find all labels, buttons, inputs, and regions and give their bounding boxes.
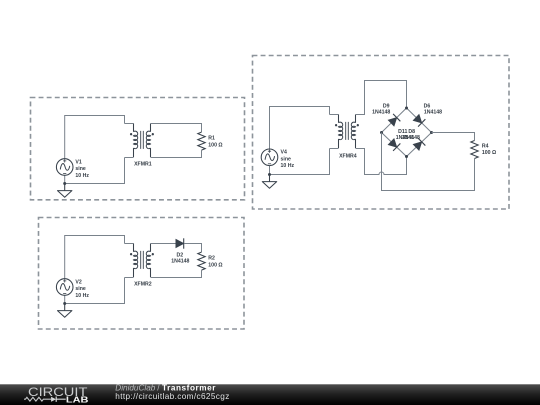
svg-text:sine: sine: [75, 286, 85, 292]
transformer XFMR2 secondary winding: [150, 244, 152, 252]
voltage source V2: plus sign: [63, 279, 66, 282]
transformer XFMR1 core lines: [141, 131, 144, 149]
svg-text:sine: sine: [75, 166, 85, 172]
node junction dot: bridge bottom node: [405, 155, 408, 158]
svg-text:1N4148: 1N4148: [424, 110, 442, 116]
wire: bridge right node to R4: [432, 133, 475, 141]
wire: jog into XFMR4 primary top: [330, 114, 339, 116]
wire: V2 top to XFMR2 primary: [65, 236, 125, 279]
svg-text:10 Hz: 10 Hz: [281, 163, 295, 169]
node junction dot: bridge right node: [430, 131, 433, 134]
wire: jog into XFMR2 primary top: [125, 243, 134, 245]
node junction dot: V4 ground junction: [268, 173, 271, 176]
svg-text:1N4148: 1N4148: [372, 110, 390, 116]
svg-text:V1: V1: [75, 159, 81, 165]
wire: R4 bottom to bridge left node: [382, 133, 475, 191]
transformer XFMR1 primary winding: [133, 124, 135, 132]
wire: V1 top to XFMR1 primary: [65, 116, 125, 159]
voltage source V4: symbol circle: [261, 149, 278, 166]
transformer XFMR4 primary winding: [338, 115, 340, 123]
dashed enclosure box around circuit 2: [39, 218, 245, 330]
svg-text:100 Ω: 100 Ω: [482, 150, 496, 156]
wire: diode D2 to R2: [184, 244, 201, 253]
svg-text:LAB: LAB: [66, 395, 89, 404]
svg-text:R4: R4: [482, 143, 489, 149]
voltage source V1: plus sign: [63, 159, 66, 162]
voltage source V2: sine wave glyph: [60, 284, 69, 291]
voltage source V4: plus sign: [268, 150, 271, 153]
transformer XFMR2 core lines: [141, 251, 144, 269]
diode D6 symbol: [413, 114, 426, 127]
wire: jog out of XFMR4 primary bottom: [330, 148, 339, 150]
transformer XFMR1 primary polarity dot: [130, 133, 132, 135]
transformer XFMR1 secondary winding: [150, 124, 152, 132]
wire: XFMR4 secondary bottom to bridge bottom node (hops left-node wire): [356, 149, 407, 175]
CircuitLab logo resistor zigzag: [24, 397, 51, 401]
voltage source V1: minus sign: [63, 173, 66, 175]
wire: V4 bottom to XFMR4 primary return: [270, 149, 330, 175]
transformer XFMR4 core lines: [346, 122, 349, 140]
transformer XFMR4 primary polarity dot: [335, 124, 337, 126]
wire: bridge diamond edges: [382, 108, 432, 157]
node junction dot: V2 ground junction: [63, 302, 66, 305]
svg-text:V4: V4: [281, 150, 287, 156]
svg-text:XFMR4: XFMR4: [339, 153, 357, 159]
diode D9 symbol: [388, 114, 401, 127]
transformer XFMR4 secondary winding: [355, 115, 357, 123]
wire: XFMR1 secondary top to R1: [151, 124, 202, 133]
dashed enclosure box around circuit 1: [31, 98, 245, 200]
wire: V4 top to XFMR4 primary: [270, 107, 330, 150]
CircuitLab logo diode symbol: [51, 397, 56, 402]
voltage source V2: minus sign: [63, 293, 66, 295]
node junction dot: bridge left node: [380, 131, 383, 134]
wire: R1 bottom to XFMR1 secondary: [151, 150, 202, 157]
wire: jog out of XFMR1 primary bottom: [125, 157, 134, 159]
dashed enclosure box around circuit 3: [253, 56, 510, 210]
svg-text:100 Ω: 100 Ω: [208, 142, 222, 148]
transformer XFMR2 primary polarity dot: [130, 253, 132, 255]
ground symbol below V2: [58, 304, 72, 318]
wire: jog into XFMR1 primary top: [125, 123, 134, 125]
svg-text:1N4148: 1N4148: [171, 258, 189, 264]
svg-text:sine: sine: [281, 157, 291, 163]
svg-text:XFMR1: XFMR1: [134, 161, 152, 167]
node junction dot: bridge top node: [405, 107, 408, 110]
svg-text:D9: D9: [383, 103, 390, 109]
transformer XFMR1 secondary polarity dot: [152, 133, 154, 135]
svg-text:10 Hz: 10 Hz: [75, 173, 89, 179]
svg-text:1N4148: 1N4148: [402, 135, 420, 141]
diode D11 symbol: [388, 138, 401, 151]
wire: V2 bottom to XFMR2 primary return: [65, 278, 125, 304]
transformer XFMR4 secondary polarity dot: [357, 124, 359, 126]
svg-text:http://circuitlab.com/c625cgz: http://circuitlab.com/c625cgz: [115, 392, 229, 401]
svg-text:R1: R1: [208, 136, 215, 142]
voltage source V4: sine wave glyph: [265, 154, 274, 161]
resistor R2 zigzag body: [198, 252, 205, 270]
diode D2 symbol: [176, 238, 184, 248]
svg-text:V2: V2: [75, 279, 81, 285]
svg-text:D6: D6: [424, 103, 431, 109]
resistor R1 zigzag body: [198, 132, 205, 150]
voltage source V2: symbol circle: [56, 279, 73, 296]
svg-text:100 Ω: 100 Ω: [208, 262, 222, 268]
ground symbol below V4: [262, 175, 276, 189]
ground symbol below V1: [58, 184, 72, 198]
svg-text:R2: R2: [208, 256, 215, 262]
transformer XFMR2 primary winding: [133, 244, 135, 252]
voltage source V1: sine wave glyph: [60, 164, 69, 171]
diode D8 symbol: [413, 138, 426, 151]
voltage source V4: minus sign: [268, 163, 271, 165]
wire: V1 bottom to XFMR1 primary return: [65, 158, 125, 184]
wire: XFMR2 secondary top to diode D2: [151, 243, 176, 245]
node junction dot: V1 ground junction: [63, 182, 66, 185]
resistor R4 zigzag body: [471, 141, 478, 159]
footer black bar: [0, 384, 540, 405]
wire: XFMR4 secondary top to bridge top node: [356, 81, 407, 115]
wire: R2 bottom to XFMR2 secondary: [151, 270, 202, 277]
wire: jog out of XFMR2 primary bottom: [125, 277, 134, 279]
svg-text:XFMR2: XFMR2: [134, 281, 152, 287]
svg-text:10 Hz: 10 Hz: [75, 293, 89, 299]
transformer XFMR2 secondary polarity dot: [152, 253, 154, 255]
voltage source V1: symbol circle: [56, 159, 73, 176]
